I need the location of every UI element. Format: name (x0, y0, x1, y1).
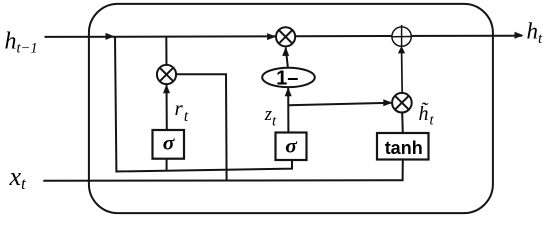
arrowhead into adder bottom (398, 46, 405, 54)
sigma box update (276, 133, 307, 161)
arrowhead into 1- bottom (285, 87, 292, 96)
wire tanh to h-tilde multiplier (401, 112, 404, 133)
wire h-tilde multiplier up to adder (401, 52, 404, 93)
arrowhead into update multiplier left (267, 33, 276, 40)
arrowheads (106, 32, 524, 106)
wire x(t) bottom horizontal line (43, 160, 403, 181)
svg-text:ht−1: ht−1 (5, 29, 38, 57)
svg-text:zt: zt (264, 105, 277, 130)
adder node (392, 25, 411, 46)
wire h(t-1) main horizontal line (45, 36, 523, 37)
wire sigma-z up through 1- to z multiplier (287, 88, 289, 133)
multiplier node reset gate (157, 65, 176, 84)
arrowhead into h-tilde multiplier left (383, 99, 392, 106)
arrowhead into reset multiplier bottom (163, 84, 170, 93)
svg-text:σ: σ (285, 133, 298, 157)
arrowhead h(t) output (515, 32, 524, 39)
wire branch down at x=115 (115, 37, 292, 172)
1- ellipse node (262, 67, 315, 89)
tanh box (377, 133, 429, 160)
multiplier node update gate (top) (276, 27, 295, 46)
wire sigma-r bottom tap (166, 159, 168, 171)
svg-text:ht: ht (527, 19, 544, 47)
wire z branch to h-tilde multiplier (288, 103, 392, 105)
wire 1- top to z multiplier (286, 48, 288, 69)
arrowhead mid h-line (106, 33, 115, 40)
svg-text:1–: 1– (276, 67, 298, 89)
cell boundary rounded rectangle (89, 4, 493, 213)
sigma box reset (153, 130, 185, 159)
wire reset multiplier output right then down (175, 74, 227, 180)
arrowhead into update multiplier bottom (282, 47, 289, 56)
svg-text:tanh: tanh (385, 138, 423, 158)
svg-text:h̃t: h̃t (419, 101, 435, 128)
multiplier node h-tilde (392, 93, 412, 113)
svg-text:σ: σ (163, 131, 176, 155)
svg-text:xt: xt (9, 162, 28, 193)
wire sigma-r to reset multiplier (166, 84, 168, 131)
svg-text:rt: rt (175, 96, 189, 125)
wire branch down to reset multiplier (165, 36, 167, 66)
